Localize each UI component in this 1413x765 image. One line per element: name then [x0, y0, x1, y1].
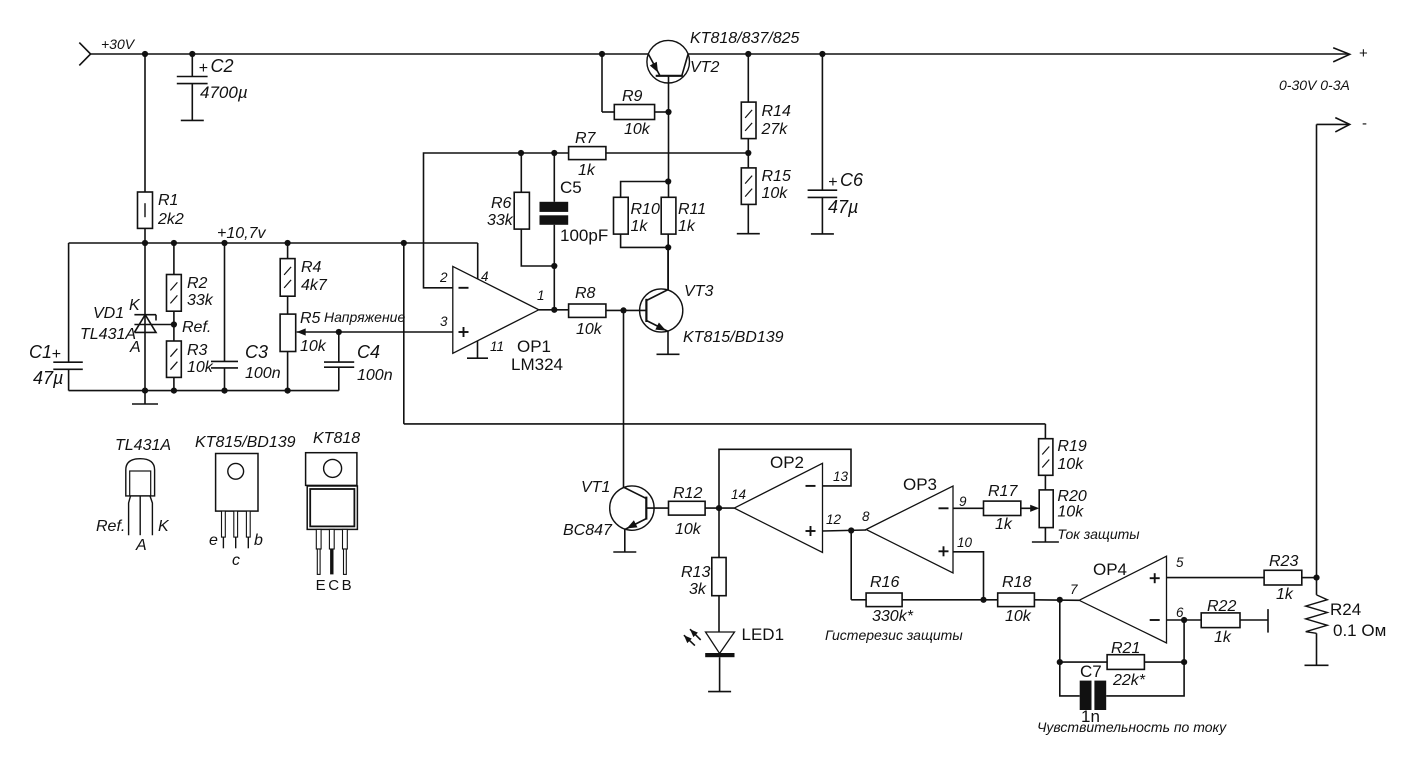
- svg-text:1k: 1k: [995, 516, 1013, 533]
- TL431A legs: [129, 496, 131, 535]
- wire: R23 to minus line: [1302, 577, 1317, 579]
- potentiometer R5: [280, 314, 296, 351]
- wire: OP1 output to R8: [539, 309, 569, 311]
- ground under R20: [1032, 541, 1059, 543]
- node: Ref: [171, 321, 177, 327]
- wire: +30V top rail: [91, 53, 649, 55]
- svg-text:R11: R11: [678, 201, 706, 218]
- svg-text:VD1: VD1: [93, 305, 124, 322]
- capacitor C2: [191, 54, 193, 77]
- op-amp OP1 triangle: [453, 266, 539, 353]
- plus sign pin3: [459, 331, 469, 333]
- svg-text:OP3: OP3: [903, 475, 937, 494]
- LED1 diode: [706, 632, 735, 654]
- wire: pin10 down to R18 line: [953, 552, 984, 600]
- capacitor C5 thick plates: [540, 202, 569, 212]
- svg-text:R21: R21: [1111, 640, 1140, 657]
- svg-text:KT815/BD139: KT815/BD139: [683, 329, 784, 346]
- svg-text:14: 14: [731, 487, 746, 502]
- svg-text:10k: 10k: [624, 121, 651, 138]
- wire: feedback U-path to OP1 pin2: [424, 153, 522, 288]
- transistor VT1 circle: [610, 486, 654, 530]
- svg-text:R8: R8: [575, 285, 596, 302]
- wire: C3 branch: [224, 243, 226, 361]
- svg-text:0-30V 0-3A: 0-30V 0-3A: [1279, 77, 1350, 93]
- node: R7 left: [518, 150, 524, 156]
- wire: R6 top: [520, 153, 522, 192]
- wire: R21 line: [1059, 600, 1061, 662]
- svg-text:Ref.: Ref.: [96, 518, 125, 535]
- svg-text:1k: 1k: [678, 218, 696, 235]
- svg-text:R12: R12: [673, 485, 702, 502]
- ground under LED1: [708, 691, 731, 693]
- node: R21 left: [1057, 659, 1063, 665]
- wire: C1 left branch: [68, 243, 70, 362]
- node: R21 right: [1181, 659, 1187, 665]
- node: R10/R11 bottom: [665, 244, 671, 250]
- package KT815 body: [216, 454, 258, 512]
- wire: R7 line: [521, 152, 569, 154]
- svg-text:c: c: [232, 552, 240, 569]
- wire: VD1 vertical K-A: [144, 243, 146, 391]
- svg-text:10k: 10k: [1057, 504, 1084, 521]
- svg-text:R17: R17: [988, 483, 1018, 500]
- wire: R10 top stub: [621, 182, 669, 198]
- svg-text:C1: C1: [29, 342, 52, 362]
- svg-text:10: 10: [957, 535, 973, 550]
- wire: R20 to ground: [1044, 528, 1046, 542]
- svg-text:C3: C3: [245, 342, 268, 362]
- KT818 hole: [324, 459, 342, 477]
- svg-text:+: +: [52, 346, 61, 363]
- node: bus corner to OP1 pin4 and down-line: [401, 240, 407, 246]
- svg-text:TL431A: TL431A: [115, 437, 171, 454]
- svg-text:VT3: VT3: [684, 283, 713, 300]
- svg-text:C4: C4: [357, 342, 380, 362]
- wire: C4 branch: [338, 332, 340, 362]
- node: R10/R11 top: [665, 178, 671, 184]
- svg-text:C: C: [328, 577, 339, 594]
- OP3 plus sign: [939, 550, 949, 552]
- svg-text:KT818/837/825: KT818/837/825: [690, 30, 800, 47]
- svg-text:33k: 33k: [487, 212, 514, 229]
- svg-text:2k2: 2k2: [157, 211, 184, 228]
- resistor R23: [1264, 570, 1302, 585]
- wire: feedback line to R19: [404, 423, 1046, 425]
- node: bus-R5b: [285, 388, 291, 394]
- svg-text:R23: R23: [1269, 553, 1298, 570]
- wire: down to R16: [850, 531, 852, 600]
- wire: R13 to LED: [718, 596, 720, 632]
- wire: R8 right to VT3 base node: [606, 309, 647, 311]
- svg-text:1: 1: [537, 288, 545, 303]
- node: bus-R3: [171, 388, 177, 394]
- svg-text:+: +: [1359, 45, 1368, 62]
- svg-text:R16: R16: [870, 574, 899, 591]
- svg-text:+30V: +30V: [101, 36, 136, 52]
- ground under R15: [737, 233, 760, 235]
- svg-text:R6: R6: [491, 195, 512, 212]
- resistor R10: [614, 197, 629, 234]
- resistor R12: [669, 501, 706, 515]
- svg-text:27k: 27k: [761, 121, 789, 138]
- op-amp OP2 triangle (left-pointing): [734, 463, 822, 552]
- transistor VT3 circle: [640, 289, 683, 332]
- svg-text:KT818: KT818: [313, 430, 360, 447]
- input terminal chevron: [79, 43, 90, 66]
- svg-text:R20: R20: [1057, 488, 1086, 505]
- svg-text:4k7: 4k7: [301, 277, 328, 294]
- svg-text:R9: R9: [622, 88, 643, 105]
- wire: R19 to R20: [1044, 475, 1046, 490]
- svg-text:8: 8: [862, 509, 870, 524]
- VT2 base lead down: [668, 76, 670, 112]
- wire: C5 top: [553, 153, 555, 202]
- wire: R14 to node: [747, 139, 749, 168]
- node: rail-R1: [142, 51, 148, 57]
- svg-text:10k: 10k: [300, 338, 327, 355]
- wire: VD1 ref line to R2/R3 node: [134, 324, 174, 326]
- svg-text:9: 9: [959, 494, 967, 509]
- svg-text:LED1: LED1: [742, 625, 785, 644]
- VT3 emitter arrow: [655, 323, 666, 331]
- svg-text:+10,7v: +10,7v: [217, 225, 266, 242]
- VT1 emitter arrow: [627, 520, 638, 528]
- wire: R4-R5: [287, 296, 289, 314]
- wire: R12 right to node: [705, 507, 734, 509]
- output - arrow: [1317, 123, 1349, 125]
- resistor R6: [514, 192, 529, 229]
- resistor R7: [569, 147, 606, 160]
- wire: R6 bottom to join: [521, 229, 554, 266]
- svg-text:+: +: [199, 60, 208, 77]
- svg-text:R24: R24: [1330, 600, 1361, 619]
- svg-text:B: B: [342, 577, 352, 594]
- svg-text:10k: 10k: [1057, 456, 1084, 473]
- svg-text:7: 7: [1070, 582, 1078, 597]
- KT815 legs: [222, 511, 226, 537]
- wire: down line from bus node x404: [403, 243, 405, 424]
- resistor R11: [661, 197, 676, 234]
- svg-text:R15: R15: [762, 168, 791, 185]
- resistor R1: [138, 192, 153, 228]
- wire: bottom ground bus: [69, 390, 339, 392]
- svg-text:R19: R19: [1057, 438, 1086, 455]
- capacitor C1: [53, 361, 83, 363]
- wire: pin5 to R23: [1167, 577, 1265, 579]
- svg-text:VT2: VT2: [690, 59, 719, 76]
- capacitor C7 thick plates: [1080, 681, 1092, 710]
- resistor R22: [1201, 613, 1240, 628]
- resistor R4: [280, 259, 295, 297]
- wire: R10 bottom stub: [621, 234, 669, 247]
- package KT818 tab: [306, 453, 357, 486]
- svg-text:KT815/BD139: KT815/BD139: [195, 434, 296, 451]
- svg-text:R14: R14: [762, 103, 791, 120]
- node: pin6: [1181, 617, 1187, 623]
- svg-text:Ток защиты: Ток защиты: [1057, 526, 1140, 542]
- node: R6-C5 bottom: [551, 263, 557, 269]
- wire: C7 right to pin6 branch: [1106, 662, 1184, 696]
- node: rail-R9: [599, 51, 605, 57]
- LED1 light arrows: [690, 629, 701, 640]
- VT3 collector slant: [646, 290, 668, 301]
- svg-text:10k: 10k: [675, 521, 702, 538]
- wire: R1 branch from rail: [144, 54, 146, 192]
- svg-text:C5: C5: [560, 178, 582, 197]
- svg-text:R4: R4: [301, 259, 322, 276]
- wiper arrow into R5: [297, 331, 339, 333]
- svg-text:R22: R22: [1207, 598, 1236, 615]
- capacitor C4: [324, 361, 354, 363]
- wire: R16 to R18: [902, 599, 998, 601]
- node: R23-R24: [1313, 575, 1319, 581]
- svg-text:1k: 1k: [1214, 629, 1232, 646]
- VT3 base bar: [645, 299, 647, 322]
- svg-text:33k: 33k: [187, 292, 214, 309]
- op-amp OP4 triangle (left-pointing): [1079, 556, 1166, 643]
- node: output-C5 branch: [551, 307, 557, 313]
- resistor R13: [712, 558, 726, 596]
- wire: VT3 base node down to VT1 collector: [623, 310, 625, 487]
- VT3 emitter lead down: [667, 331, 669, 354]
- svg-text:R13: R13: [681, 564, 710, 581]
- VT1 base bar: [645, 497, 647, 520]
- svg-text:R18: R18: [1002, 574, 1031, 591]
- resistor R3: [167, 341, 182, 377]
- svg-text:3: 3: [440, 314, 448, 329]
- KT815 hole: [228, 463, 244, 479]
- svg-text:R1: R1: [158, 192, 178, 209]
- node: bus-R4: [285, 240, 291, 246]
- wire: C5/R6 bottom join vertical: [553, 266, 555, 310]
- svg-text:1k: 1k: [631, 218, 649, 235]
- svg-text:100n: 100n: [357, 367, 393, 384]
- resistor R21: [1107, 655, 1144, 670]
- OP4 plus sign: [1150, 577, 1160, 579]
- minus sign pin2: [459, 287, 469, 289]
- svg-text:3k: 3k: [689, 581, 707, 598]
- OP1 pin11 stub and ground: [477, 341, 479, 358]
- wire: pin9 to R17: [953, 507, 984, 509]
- ground under VT3: [657, 353, 680, 355]
- wire: R5 bottom to bus: [287, 352, 289, 391]
- node: wiper-C4: [336, 329, 342, 335]
- svg-text:13: 13: [833, 469, 849, 484]
- svg-text:100n: 100n: [245, 365, 281, 382]
- svg-text:+: +: [828, 174, 837, 191]
- svg-text:e: e: [209, 532, 218, 549]
- svg-text:12: 12: [826, 512, 842, 527]
- svg-text:E: E: [316, 577, 326, 594]
- wire: R3 to bottom bus: [173, 377, 175, 390]
- OP2 plus sign: [806, 530, 816, 532]
- svg-text:10k: 10k: [762, 185, 789, 202]
- wire: R2 to ref node: [173, 311, 175, 341]
- wire: R17 to R20 wiper arrow: [1021, 507, 1037, 509]
- svg-text:R3: R3: [187, 342, 208, 359]
- wire: R9 left from rail: [601, 54, 603, 112]
- node: bus-R1: [142, 240, 148, 246]
- VT2 emitter arrow: [650, 62, 658, 73]
- svg-text:TL431A: TL431A: [80, 326, 136, 343]
- resistor R18: [998, 593, 1035, 607]
- svg-text:-: -: [1362, 115, 1367, 132]
- resistor R15: [741, 168, 756, 205]
- svg-text:K: K: [158, 518, 170, 535]
- svg-text:Ref.: Ref.: [182, 319, 211, 336]
- svg-text:10k: 10k: [576, 321, 603, 338]
- svg-text:1k: 1k: [578, 162, 596, 179]
- svg-text:A: A: [135, 537, 147, 554]
- svg-text:22k*: 22k*: [1112, 672, 1146, 689]
- svg-text:10k: 10k: [187, 359, 214, 376]
- wire: +10.7v bus: [69, 242, 404, 244]
- wire: pin6 node: [1167, 619, 1202, 621]
- svg-text:11: 11: [490, 339, 504, 354]
- wire: base node down to R10/R11 top node: [668, 112, 670, 197]
- ground under VT1: [613, 551, 636, 553]
- svg-text:LM324: LM324: [511, 355, 563, 374]
- node: R16-R18-pin10: [980, 597, 986, 603]
- wire: R14 top from rail: [747, 54, 749, 102]
- resistor R19: [1039, 439, 1053, 476]
- wire: R18 to OP4 apex: [1034, 599, 1079, 602]
- OP4 minus sign: [1150, 619, 1160, 621]
- wire: R9 right to VT2 base node: [655, 111, 669, 113]
- wire: R22 to terminal: [1240, 619, 1268, 621]
- svg-text:OP1: OP1: [517, 337, 551, 356]
- svg-text:C7: C7: [1080, 662, 1102, 681]
- svg-text:1k: 1k: [1276, 586, 1294, 603]
- resistor R9: [614, 105, 654, 120]
- wire: OP2 pin12 to OP3 apex: [823, 530, 867, 531]
- wire: VT1 base to R12: [646, 507, 668, 509]
- resistor R16: [866, 593, 902, 607]
- ground under R24: [1305, 664, 1329, 666]
- resistor R24 zigzag: [1306, 595, 1328, 633]
- svg-text:OP2: OP2: [770, 453, 804, 472]
- svg-text:Чувствительность по току: Чувствительность по току: [1037, 719, 1227, 735]
- node: R8-VT3base-VT1: [620, 307, 626, 313]
- wire: minus output vertical to R23 node: [1316, 124, 1318, 595]
- node: bus-C3: [221, 240, 227, 246]
- wire: pin6 down to R21/C7: [1183, 620, 1185, 662]
- capacitor C3: [211, 360, 238, 362]
- svg-text:C2: C2: [211, 56, 234, 76]
- svg-text:R7: R7: [575, 130, 597, 147]
- KT818 legs: [316, 529, 321, 549]
- resistor R14: [741, 102, 756, 139]
- svg-text:2: 2: [439, 270, 448, 285]
- output + arrow: [1333, 48, 1350, 62]
- VT1 collector slant: [624, 487, 647, 498]
- node: OP2 input node: [716, 505, 722, 511]
- resistor R17: [984, 501, 1021, 515]
- svg-text:Напряжение: Напряжение: [324, 309, 405, 325]
- transistor VT2 circle: [647, 40, 690, 83]
- resistor R8: [569, 304, 606, 317]
- VT2 emitter slant from rail: [648, 54, 660, 76]
- svg-text:b: b: [254, 532, 263, 549]
- svg-text:5: 5: [1176, 555, 1184, 570]
- ground under C2: [181, 119, 204, 121]
- wire: node up and over to pin13 loop: [719, 449, 851, 508]
- node: bus-C3b: [221, 388, 227, 394]
- node: R14-R15-R7: [745, 150, 751, 156]
- node: VT2 base-R9: [665, 109, 671, 115]
- OP2 minus sign: [806, 485, 816, 487]
- VT2 collector slant to rail: [682, 54, 688, 76]
- VT3 collector lead up: [667, 247, 669, 289]
- terminal bar after R22: [1267, 609, 1269, 633]
- wire: R2 top: [173, 243, 175, 275]
- svg-text:R5: R5: [300, 310, 321, 327]
- KT818 body: [307, 486, 357, 529]
- diode VD1 TL431A symbol: [134, 314, 156, 316]
- svg-text:47µ: 47µ: [33, 368, 63, 388]
- wire: wiper node to OP1 pin3: [339, 331, 453, 333]
- wire: R15 to ground: [747, 204, 749, 233]
- node: rail-C6: [819, 51, 825, 57]
- OP3 minus sign: [939, 507, 949, 509]
- svg-text:R2: R2: [187, 275, 208, 292]
- wire: C7 loop: [1060, 662, 1080, 696]
- wire: R24 to ground: [1316, 633, 1318, 665]
- op-amp OP3 triangle (left-pointing): [866, 486, 953, 573]
- ground stub below VD1: [144, 391, 146, 404]
- ground bar: [132, 403, 158, 405]
- ground under C6: [811, 233, 834, 235]
- package TL431A body: [126, 459, 155, 496]
- svg-text:VT1: VT1: [581, 479, 610, 496]
- svg-text:Гистерезис защиты: Гистерезис защиты: [825, 627, 963, 643]
- node: C5 top branch: [551, 150, 557, 156]
- svg-text:K: K: [129, 297, 141, 314]
- wire: R11 bottom to VT3 collector: [667, 234, 669, 290]
- wire: R13 down from node: [718, 508, 720, 557]
- VT1 emitter slant: [625, 519, 647, 530]
- svg-text:330k*: 330k*: [872, 608, 914, 625]
- svg-text:BC847: BC847: [563, 522, 613, 539]
- node: rail-C2: [189, 51, 195, 57]
- svg-text:OP4: OP4: [1093, 560, 1127, 579]
- VT3 emitter slant: [646, 321, 668, 332]
- svg-text:100pF: 100pF: [560, 226, 608, 245]
- VT2 base bar: [656, 75, 683, 77]
- node: bus-R2: [171, 240, 177, 246]
- capacitor C6: [808, 189, 838, 191]
- wire: R1 to bus: [144, 228, 146, 243]
- svg-text:C6: C6: [840, 170, 864, 190]
- node: rail-R14: [745, 51, 751, 57]
- node: bus-VD1: [142, 388, 148, 394]
- wire: R7 right to R14/R15 node: [606, 152, 748, 154]
- VT1 emitter lead: [624, 530, 626, 553]
- svg-text:R10: R10: [631, 201, 660, 218]
- resistor R2: [167, 275, 182, 312]
- svg-text:4700µ: 4700µ: [200, 83, 248, 102]
- svg-text:0.1 Ом: 0.1 Ом: [1333, 621, 1386, 640]
- wire: C6 from rail: [821, 54, 823, 190]
- potentiometer R20: [1039, 490, 1053, 528]
- svg-text:47µ: 47µ: [828, 197, 858, 217]
- svg-text:10k: 10k: [1005, 608, 1032, 625]
- node: R18-OP4-R21: [1057, 597, 1063, 603]
- node: OP2out-OP3: [848, 527, 854, 533]
- wire: OP1 pin4 power from bus: [404, 242, 478, 244]
- wire: R4 top: [287, 243, 289, 259]
